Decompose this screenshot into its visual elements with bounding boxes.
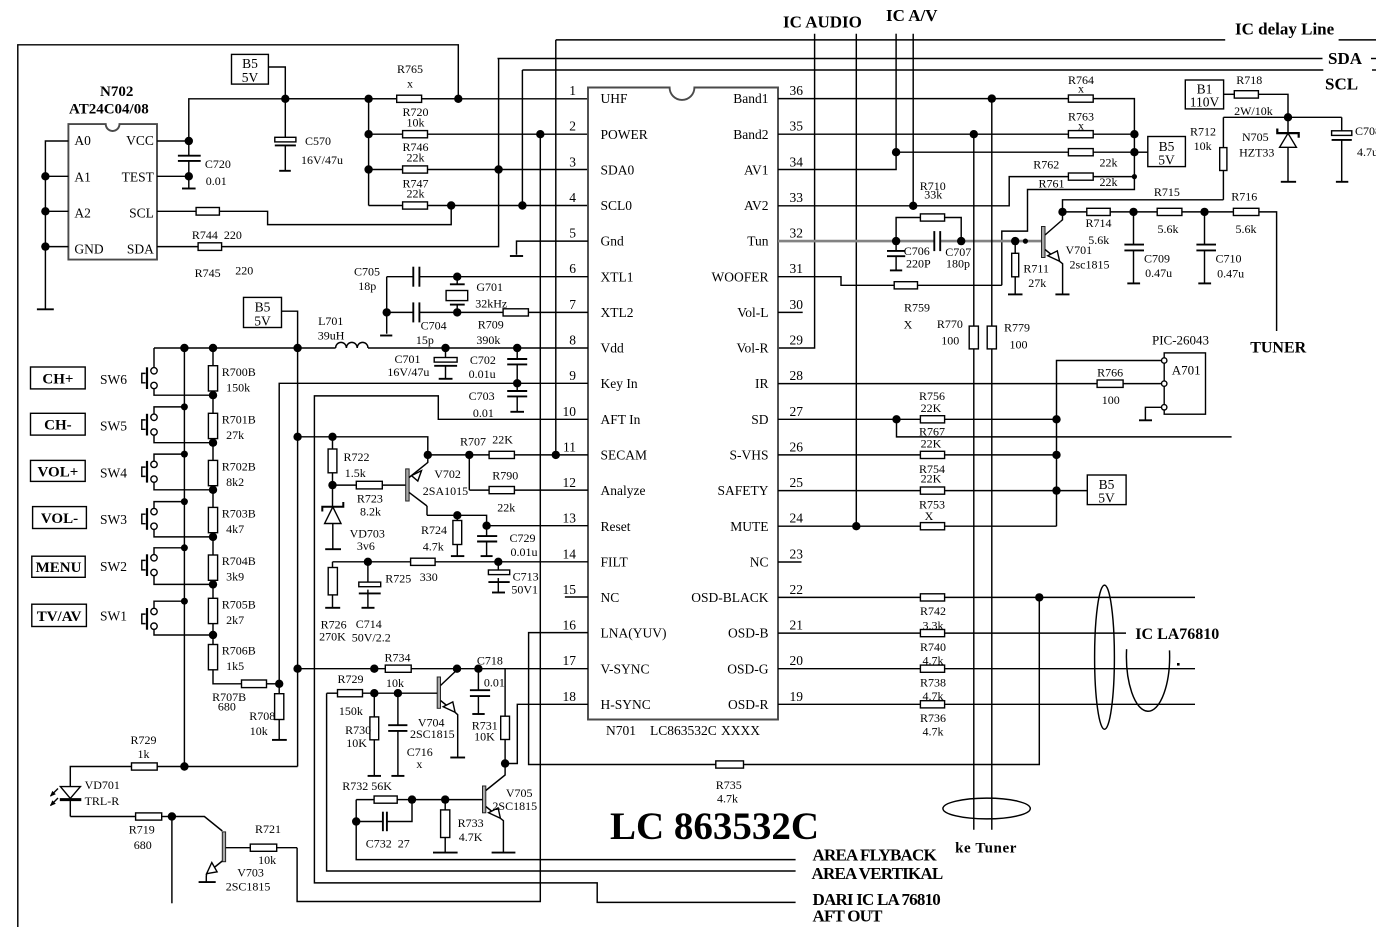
- svg-text:R724: R724: [421, 523, 447, 537]
- svg-text:27: 27: [790, 404, 804, 419]
- svg-text:IC LA76810: IC LA76810: [1135, 626, 1219, 643]
- ground V705 emitter: [492, 852, 516, 854]
- svg-text:NC: NC: [601, 590, 620, 605]
- node IC AUDIO line2 on MUTE: [852, 522, 860, 530]
- svg-text:R765: R765: [397, 62, 423, 76]
- svg-text:10k: 10k: [407, 115, 425, 129]
- svg-text:7: 7: [569, 297, 576, 312]
- switch SW1: [142, 601, 213, 635]
- svg-text:VOL+: VOL+: [38, 464, 79, 480]
- svg-text:10k: 10k: [258, 853, 276, 867]
- node KeyIn R708: [275, 680, 283, 688]
- svg-text:32: 32: [790, 226, 804, 241]
- svg-text:10: 10: [563, 404, 577, 419]
- node R729 keypad bus: [180, 762, 188, 770]
- svg-text:C708: C708: [1355, 124, 1376, 138]
- capacitor C709: [1124, 212, 1144, 284]
- node pin3 bus: [364, 165, 372, 173]
- node V-SYNC bus: [293, 665, 301, 673]
- svg-text:1.5k: 1.5k: [345, 466, 366, 480]
- svg-text:22K: 22K: [921, 472, 942, 486]
- resistor R738: [920, 665, 944, 672]
- resistor R712: [1220, 117, 1227, 200]
- resistor R718: [1224, 91, 1288, 118]
- svg-text:5.6k: 5.6k: [1236, 222, 1257, 236]
- pin A701 bottom: [1162, 405, 1167, 410]
- ellipse coil B arc: [1126, 649, 1169, 711]
- svg-text:TRL-R: TRL-R: [85, 794, 120, 808]
- svg-text:HZT33: HZT33: [1239, 146, 1274, 160]
- capacitor C703: [507, 383, 527, 412]
- svg-text:Band1: Band1: [733, 91, 768, 106]
- wire bus to B5 box: [1134, 151, 1147, 153]
- capacitor C570 electrolytic: [275, 99, 296, 171]
- node V704 base C716: [394, 689, 402, 697]
- svg-text:TEST: TEST: [122, 170, 155, 185]
- svg-text:12: 12: [563, 475, 577, 490]
- svg-text:6: 6: [569, 261, 576, 276]
- node XTL2 crystal: [453, 308, 461, 316]
- node R731 V705: [501, 759, 509, 767]
- wire IC AUDIO line 2 to MUTE pin24: [855, 34, 857, 527]
- IC N702 EEPROM box: [68, 124, 157, 260]
- svg-text:H-SYNC: H-SYNC: [601, 697, 651, 712]
- wire SDA right stub: [1371, 58, 1376, 60]
- wire SDA0 pin3 line: [369, 169, 588, 171]
- ground V704 emitter: [450, 757, 465, 759]
- resistor R770: [969, 134, 978, 830]
- resistor R765: [397, 95, 422, 102]
- svg-text:100: 100: [1010, 337, 1028, 351]
- wire AV2 pin33 to R761: [778, 177, 1068, 206]
- node rail C710: [1200, 208, 1208, 216]
- resistor R753: [920, 523, 944, 530]
- svg-text:A2: A2: [74, 206, 91, 221]
- wire R756 right: [945, 418, 1057, 420]
- wire A0 to left bus: [45, 141, 68, 309]
- wire IR pin28 line: [778, 383, 1097, 385]
- svg-text:27k: 27k: [226, 428, 244, 442]
- wire LNA pin16 to R735 line: [529, 633, 716, 765]
- svg-text:Band2: Band2: [733, 127, 768, 142]
- svg-text:SCL0: SCL0: [601, 198, 633, 213]
- svg-text:IR: IR: [755, 376, 769, 391]
- resistor R707B: [242, 680, 267, 688]
- transistor V704 2SC1815: [437, 672, 458, 757]
- resistor R763: [1068, 131, 1093, 138]
- svg-text:33k: 33k: [924, 188, 942, 202]
- box label CH-: [31, 413, 86, 435]
- node Tun small: [1023, 239, 1028, 244]
- wire Band1 pin36 line: [778, 98, 1068, 100]
- wire Vdd rail: [154, 347, 336, 349]
- svg-text:TUNER: TUNER: [1250, 340, 1306, 357]
- svg-text:AT24C04/08: AT24C04/08: [69, 102, 149, 118]
- svg-text:R706B: R706B: [222, 644, 256, 658]
- capacitor C718: [470, 669, 490, 714]
- wire Band2 pin35 line: [778, 133, 1068, 135]
- wire R763 to bus: [1093, 133, 1134, 135]
- svg-text:B5: B5: [255, 300, 271, 315]
- IC A701 box: [1164, 353, 1205, 414]
- node rail C709: [1129, 208, 1137, 216]
- svg-text:R708: R708: [249, 709, 275, 723]
- wire chain segment: [212, 439, 214, 461]
- svg-text:V-SYNC: V-SYNC: [601, 661, 650, 676]
- node SD A701 bus: [1052, 415, 1060, 423]
- svg-text:3: 3: [569, 154, 576, 169]
- node bus R763: [1130, 130, 1138, 138]
- node pin2 bus: [364, 130, 372, 138]
- node chain junction: [209, 391, 217, 399]
- svg-text:5V: 5V: [1158, 153, 1175, 168]
- svg-text:4.7k: 4.7k: [717, 791, 738, 805]
- capacitor C706 body: [887, 241, 905, 270]
- capacitor C716: [388, 693, 407, 776]
- node Tun C706: [892, 237, 900, 245]
- svg-text:R779: R779: [1004, 321, 1030, 335]
- svg-text:23: 23: [790, 546, 804, 561]
- resistor R742: [920, 594, 944, 601]
- node bus Vdd: [180, 344, 188, 352]
- svg-text:OSD-B: OSD-B: [728, 626, 769, 641]
- svg-text:C729: C729: [510, 531, 536, 545]
- svg-text:R766: R766: [1097, 365, 1123, 379]
- svg-text:Tun: Tun: [747, 234, 769, 249]
- node SECAM delay-line vertical: [552, 451, 560, 459]
- resistor R766: [1097, 380, 1123, 387]
- wire WOOFER pin31 to R759: [778, 277, 894, 286]
- wire R761 to bus: [1093, 176, 1134, 178]
- svg-text:CH+: CH+: [42, 371, 73, 387]
- wire R754 right: [945, 490, 1088, 492]
- switch SW2: [142, 548, 213, 585]
- svg-text:10k: 10k: [1194, 139, 1212, 153]
- resistor R736: [920, 701, 944, 708]
- svg-text:B5: B5: [242, 56, 258, 71]
- svg-text:LC 863532C: LC 863532C: [610, 805, 819, 848]
- wire H-SYNC pin18: [505, 704, 588, 763]
- wire Analyze pin12 line: [469, 489, 588, 491]
- svg-text:0.47u: 0.47u: [1145, 266, 1172, 280]
- node Vdd C701: [441, 344, 449, 352]
- svg-text:Vol-R: Vol-R: [736, 341, 768, 356]
- box B1: [1185, 80, 1223, 109]
- svg-text:39uH: 39uH: [318, 328, 345, 342]
- svg-text:R734: R734: [384, 651, 410, 665]
- node V701 collector rail: [1058, 208, 1066, 216]
- node chain Vdd: [209, 344, 217, 352]
- resistor R747: [403, 202, 428, 209]
- resistor R745: [157, 243, 222, 251]
- svg-text:8k2: 8k2: [226, 475, 244, 489]
- svg-text:100: 100: [1102, 393, 1120, 407]
- wire zener rail: [1223, 116, 1341, 118]
- svg-text:x: x: [1078, 118, 1084, 132]
- svg-text:2SC1815: 2SC1815: [410, 727, 455, 741]
- wire B5 to rail: [268, 67, 285, 99]
- resistor R754: [920, 487, 944, 494]
- ground R733: [433, 852, 458, 854]
- resistor R735: [716, 597, 1040, 768]
- resistor R701B: [208, 413, 217, 438]
- svg-text:2SA1015: 2SA1015: [423, 484, 468, 498]
- wire IC delay line right stub: [1339, 39, 1376, 41]
- wire R707B to node: [267, 683, 280, 685]
- svg-text:26: 26: [790, 439, 804, 454]
- svg-text:50V1: 50V1: [511, 582, 538, 596]
- svg-text:SW4: SW4: [100, 466, 127, 481]
- svg-text:0.01: 0.01: [484, 676, 505, 690]
- wire V705 base line: [412, 799, 483, 801]
- svg-text:V701: V701: [1066, 243, 1093, 257]
- svg-text:R729: R729: [130, 733, 156, 747]
- svg-text:C570: C570: [305, 134, 331, 148]
- svg-text:0.01u: 0.01u: [511, 545, 538, 559]
- svg-text:C705: C705: [354, 264, 380, 278]
- svg-text:0.01: 0.01: [473, 406, 494, 420]
- svg-text:C703: C703: [469, 389, 495, 403]
- wire R759 right: [918, 284, 1002, 286]
- svg-text:8.2k: 8.2k: [360, 505, 381, 519]
- wire IC AUDIO line 1 to Vol-R pin29: [778, 34, 815, 348]
- svg-text:IC delay Line: IC delay Line: [1235, 20, 1335, 39]
- svg-text:270K: 270K: [319, 630, 346, 644]
- svg-text:R723: R723: [357, 492, 383, 506]
- pin A701 top: [1162, 358, 1167, 363]
- node C570 rail: [281, 95, 289, 103]
- ground crystal bus: [380, 335, 392, 337]
- node diamond mark: [1177, 663, 1180, 666]
- node Vdd B5 bus: [293, 344, 301, 352]
- svg-text:R702B: R702B: [222, 460, 256, 474]
- wire IC delay vertical to SECAM: [555, 40, 557, 455]
- svg-text:29: 29: [790, 333, 804, 348]
- svg-text:R770: R770: [937, 317, 963, 331]
- svg-text:XTL2: XTL2: [601, 305, 634, 320]
- capacitor C713 electrolytic: [488, 562, 509, 593]
- resistor R744: [157, 208, 219, 216]
- svg-text:R719: R719: [129, 823, 155, 837]
- svg-text:R707: R707: [460, 434, 486, 448]
- resistor R725: [411, 558, 436, 565]
- svg-text:LC863532C: LC863532C: [650, 723, 717, 738]
- node keypad bus SW1: [181, 598, 188, 605]
- svg-text:390k: 390k: [476, 333, 500, 347]
- svg-text:C718: C718: [477, 654, 503, 668]
- node V704 base R730: [370, 689, 378, 697]
- node rail R765 left: [364, 95, 372, 103]
- ground R708: [272, 739, 287, 741]
- svg-text:Vol-L: Vol-L: [737, 305, 768, 320]
- box B5 top: [232, 54, 269, 84]
- svg-text:27k: 27k: [1028, 276, 1046, 290]
- wire S-VHS pin26 line: [778, 454, 920, 456]
- box B5 mid: [244, 297, 282, 327]
- svg-text:3k9: 3k9: [226, 570, 244, 584]
- resistor R734: [385, 665, 411, 672]
- svg-text:AV2: AV2: [744, 198, 769, 213]
- svg-text:V702: V702: [434, 467, 461, 481]
- capacitor C702: [507, 348, 527, 383]
- svg-text:16V/47u: 16V/47u: [387, 365, 429, 379]
- svg-text:SDA: SDA: [1328, 49, 1363, 68]
- wire crystal left bus to ground: [386, 277, 388, 334]
- node keypad bus: [181, 544, 188, 551]
- node keypad bus: [181, 403, 188, 410]
- resistor R790: [489, 487, 514, 494]
- node chain junction: [209, 631, 217, 639]
- wire R706B bottom to R707B: [213, 670, 242, 684]
- svg-text:Gnd: Gnd: [601, 234, 624, 249]
- box label CH+: [31, 367, 86, 389]
- resistor R707: [489, 451, 514, 458]
- wire chain segment: [212, 533, 214, 555]
- svg-text:C702: C702: [470, 353, 496, 367]
- ellipse coil A: [1095, 585, 1115, 729]
- svg-text:C732 27: C732 27: [366, 837, 410, 851]
- wire V702 collector to Reset: [427, 515, 487, 525]
- node A1 bus: [41, 172, 49, 180]
- svg-text:11: 11: [563, 439, 576, 454]
- svg-text:5V: 5V: [254, 314, 271, 329]
- node chain junction: [209, 580, 217, 588]
- node S-VHS A701 bus: [1052, 451, 1060, 459]
- svg-text:R740: R740: [920, 640, 946, 654]
- svg-text:R712: R712: [1190, 125, 1216, 139]
- svg-text:680: 680: [134, 838, 152, 852]
- capacitor C701 electrolytic: [434, 348, 457, 379]
- svg-text:N702: N702: [100, 84, 133, 100]
- capacitor C720: [178, 141, 201, 176]
- svg-text:10K: 10K: [346, 736, 367, 750]
- svg-text:R761: R761: [1039, 177, 1065, 191]
- resistor R759: [894, 282, 917, 289]
- node FILT C713: [494, 558, 502, 566]
- svg-text:C709: C709: [1144, 252, 1170, 266]
- wire AREA FLYBACK riser: [356, 800, 795, 860]
- svg-text:35: 35: [790, 119, 804, 134]
- svg-text:2: 2: [569, 119, 576, 134]
- resistor R731: [501, 669, 510, 764]
- svg-text:1: 1: [569, 83, 576, 98]
- svg-text:31: 31: [790, 261, 804, 276]
- svg-text:19: 19: [790, 689, 804, 704]
- wire keypad common bus: [183, 348, 185, 767]
- svg-text:GND: GND: [74, 242, 103, 257]
- svg-text:R736: R736: [920, 711, 946, 725]
- svg-text:25: 25: [790, 475, 804, 490]
- svg-text:x: x: [407, 77, 413, 91]
- svg-text:C720: C720: [205, 157, 231, 171]
- svg-text:V703: V703: [237, 865, 264, 879]
- svg-text:680: 680: [218, 700, 236, 714]
- svg-text:R725: R725: [385, 572, 411, 586]
- ground R724: [451, 555, 464, 557]
- node KeyIn C703: [513, 379, 521, 387]
- wire TEST node stub down: [188, 176, 190, 188]
- transistor V701 2sc1815: [1042, 212, 1063, 295]
- node Band1 R779: [988, 94, 996, 102]
- svg-text:R732 56K: R732 56K: [342, 779, 392, 793]
- svg-text:X: X: [904, 318, 913, 332]
- svg-text:18p: 18p: [358, 279, 376, 293]
- resistor R710 loop: [896, 214, 961, 241]
- resistor R708: [275, 684, 284, 740]
- svg-text:13: 13: [563, 511, 577, 526]
- svg-text:2k7: 2k7: [226, 613, 244, 627]
- resistor R706B: [208, 645, 217, 670]
- wire POWER long vertical: [297, 134, 540, 901]
- svg-text:C713: C713: [513, 569, 539, 583]
- svg-text:R733: R733: [458, 816, 484, 830]
- wire IC delay line horizontal: [556, 39, 1225, 41]
- wire R767 long line: [897, 419, 1232, 437]
- box label MENU: [32, 556, 85, 577]
- wire SCL top horizontal: [522, 69, 1323, 71]
- wire node436 rail: [298, 437, 428, 455]
- node zener rail: [1284, 113, 1292, 121]
- svg-text:R716: R716: [1231, 190, 1257, 204]
- wire GND: [45, 246, 68, 248]
- node pin4 R744 elbow: [447, 201, 455, 209]
- ground V703 emitter: [199, 881, 216, 883]
- wire R753 right: [945, 525, 1057, 527]
- svg-text:N701: N701: [606, 723, 636, 738]
- wire A701 top to bus: [1057, 361, 1162, 527]
- svg-text:2SC1815: 2SC1815: [492, 799, 537, 813]
- wire OSD-BLACK pin22 line: [778, 596, 1195, 598]
- svg-text:x: x: [1078, 82, 1084, 96]
- svg-text:MENU: MENU: [36, 560, 82, 576]
- wire Vol-L pin30 stub: [778, 311, 803, 313]
- svg-text:R722: R722: [344, 450, 370, 464]
- svg-text:34: 34: [790, 154, 804, 169]
- box B5 right: [1148, 137, 1186, 167]
- wire NC pin15 stub: [565, 596, 588, 598]
- node R724 top: [453, 511, 461, 519]
- svg-text:IC AUDIO: IC AUDIO: [783, 12, 862, 31]
- svg-text:R735: R735: [716, 778, 742, 792]
- svg-text:50V/2.2: 50V/2.2: [352, 630, 391, 644]
- svg-text:9: 9: [569, 368, 576, 383]
- svg-text:150k: 150k: [226, 380, 250, 394]
- svg-text:R700B: R700B: [222, 365, 256, 379]
- svg-text:28: 28: [790, 368, 804, 383]
- wire SCL top vertical: [521, 70, 523, 206]
- wire B5 mid to Vdd rail: [282, 311, 298, 348]
- svg-text:Reset: Reset: [601, 519, 631, 534]
- svg-text:5V: 5V: [242, 70, 259, 85]
- wire B5 bus down to R729 line: [297, 348, 299, 767]
- node C732 left: [352, 817, 360, 825]
- svg-text:AREA FLYBACK: AREA FLYBACK: [813, 846, 938, 865]
- svg-text:110V: 110V: [1190, 95, 1220, 110]
- resistor R714: [1087, 208, 1110, 215]
- node AV2 ICAV2: [909, 202, 917, 210]
- node OSD-BLACK R735: [1035, 593, 1043, 601]
- node Reset C729: [482, 522, 490, 530]
- svg-text:OSD-R: OSD-R: [728, 697, 769, 712]
- svg-text:x: x: [416, 757, 422, 771]
- svg-text:SECAM: SECAM: [601, 448, 648, 463]
- node V-SYNC R734 left: [370, 665, 378, 673]
- node FILT C714: [364, 558, 372, 566]
- switch SW3: [142, 502, 213, 537]
- wire XTL2 pin7 line: [419, 311, 588, 313]
- box label TV/AV: [32, 604, 87, 626]
- wire MUTE pin24 line: [778, 525, 920, 527]
